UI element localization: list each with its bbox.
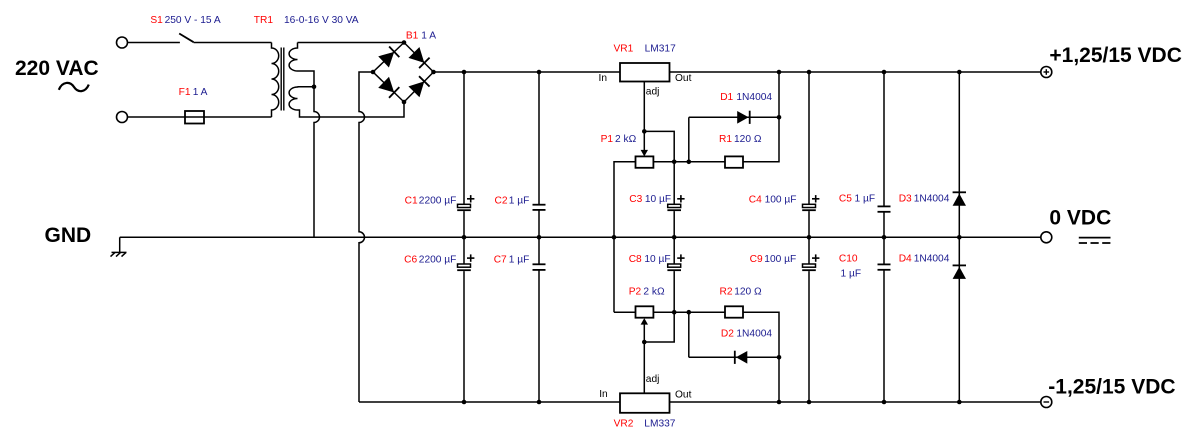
svg-text:VR1: VR1	[614, 43, 634, 54]
capacitor C7	[533, 263, 546, 265]
capacitor C3	[668, 204, 681, 207]
wire + rail left of VR1	[434, 71, 621, 73]
node D3/D4 GND	[957, 235, 962, 240]
node C2/C7 GND	[537, 235, 542, 240]
node bridge bottom	[402, 100, 407, 105]
wire C2/C7 vertical	[538, 72, 540, 205]
svg-text:P2: P2	[629, 287, 642, 298]
wire GND stub to chassis	[119, 237, 121, 252]
node C6 bottom	[462, 400, 467, 405]
node C5 top	[882, 70, 887, 75]
svg-text:1 A: 1 A	[193, 87, 208, 98]
node C10 bottom	[882, 400, 887, 405]
svg-text:250 V - 15 A: 250 V - 15 A	[165, 15, 221, 26]
terminal 220VAC line L	[117, 37, 128, 48]
bridge diode top-left	[379, 46, 399, 67]
svg-text:C1: C1	[405, 196, 418, 207]
svg-text:LM317: LM317	[645, 43, 676, 54]
svg-text:1 µF: 1 µF	[509, 254, 530, 265]
diode D1	[737, 111, 748, 124]
potentiometer P2 body	[636, 306, 654, 317]
node P1 left GND junction	[612, 235, 617, 240]
node D3 top	[957, 70, 962, 75]
wire D3/D4 vertical	[958, 72, 960, 402]
AC sine symbol	[59, 83, 89, 91]
svg-text:10 µF: 10 µF	[644, 254, 670, 265]
wire terminal L to switch	[128, 42, 180, 44]
svg-text:C3: C3	[629, 194, 642, 205]
node adj2	[642, 340, 647, 345]
terminal +1.25/15 VDC	[1041, 67, 1052, 78]
node C4 top	[807, 70, 812, 75]
svg-text:120 Ω: 120 Ω	[734, 134, 762, 145]
node C1 top	[462, 70, 467, 75]
wire switch to transformer primary	[194, 42, 272, 44]
wire - rail left of VR2	[359, 401, 620, 403]
svg-text:In: In	[599, 389, 608, 400]
node C3/C8 GND	[672, 235, 677, 240]
wire terminal N to fuse	[128, 116, 186, 118]
diode D3	[953, 194, 966, 206]
node C1/C6 GND	[462, 235, 467, 240]
node D2 cathode junction	[777, 355, 782, 360]
wire secondary upper center-tap lead	[298, 71, 315, 87]
svg-text:1 µF: 1 µF	[841, 268, 862, 279]
wire R2 right to - rail	[743, 312, 779, 402]
svg-text:C2: C2	[495, 196, 508, 207]
node center tap	[312, 84, 317, 89]
svg-text:C5: C5	[839, 194, 852, 205]
svg-text:1 µF: 1 µF	[509, 196, 530, 207]
wire - rail right of VR2	[670, 401, 1041, 403]
wire R1 right to + rail	[743, 72, 779, 162]
svg-text:1 µF: 1 µF	[855, 194, 876, 205]
wire D2 horizontal	[689, 356, 779, 358]
wire P2 right	[653, 311, 725, 313]
wire C4/C9 vertical	[808, 72, 810, 204]
svg-text:0 VDC: 0 VDC	[1049, 206, 1111, 229]
wire C1/C6 vertical	[463, 72, 465, 204]
wire VR1 adj	[643, 82, 645, 132]
wire adj1 to C3 line	[644, 131, 674, 156]
svg-text:100 µF: 100 µF	[765, 194, 797, 205]
svg-text:C4: C4	[749, 194, 762, 205]
capacitor C5	[878, 205, 891, 207]
capacitor C8	[668, 264, 681, 267]
svg-text:In: In	[599, 73, 608, 84]
DC symbol	[1079, 237, 1111, 239]
wire GND rail	[120, 236, 1041, 238]
node R2 vertical on - rail	[777, 400, 782, 405]
potentiometer P2 wiper	[643, 324, 645, 343]
svg-text:2200 µF: 2200 µF	[419, 254, 457, 265]
ground chassis symbol	[112, 251, 127, 253]
bridge B1 outline	[373, 43, 434, 103]
transformer TR1 core	[280, 48, 282, 111]
switch S1	[179, 34, 193, 43]
bridge diode bottom-right	[409, 76, 430, 97]
svg-text:16-0-16 V 30 VA: 16-0-16 V 30 VA	[284, 15, 359, 26]
svg-text:B1: B1	[406, 31, 419, 42]
svg-text:D4: D4	[899, 254, 912, 265]
transformer TR1 primary winding	[272, 43, 279, 118]
node C4/C9 GND	[807, 235, 812, 240]
svg-text:Out: Out	[675, 389, 692, 400]
resistor R1	[725, 156, 743, 167]
svg-text:TR1: TR1	[254, 15, 274, 26]
svg-text:C6: C6	[404, 254, 417, 265]
svg-text:100 µF: 100 µF	[764, 254, 796, 265]
capacitor C1	[458, 204, 471, 207]
svg-text:LM337: LM337	[644, 418, 675, 429]
wire P1 right	[653, 161, 725, 163]
node P2 right / C8	[672, 310, 677, 315]
svg-text:C9: C9	[750, 254, 763, 265]
capacitor C6	[458, 264, 471, 267]
wire adj2 to C8 line	[644, 312, 674, 342]
svg-text:-1,25/15 VDC: -1,25/15 VDC	[1048, 375, 1175, 398]
bridge diode bottom-left	[379, 77, 399, 98]
node bridge right	[431, 70, 436, 75]
resistor R2	[725, 306, 743, 317]
svg-text:10 µF: 10 µF	[645, 194, 671, 205]
wire D1 horizontal	[689, 116, 779, 118]
wire C5/C10 vertical	[883, 72, 885, 206]
svg-text:R2: R2	[720, 287, 733, 298]
svg-text:D1: D1	[720, 92, 733, 103]
svg-text:2200 µF: 2200 µF	[419, 196, 457, 207]
wire P2 left	[614, 311, 636, 313]
svg-text:Out: Out	[675, 73, 692, 84]
wire + rail right of VR1	[670, 71, 1041, 73]
svg-text:220 VAC: 220 VAC	[15, 57, 99, 80]
wire center tap to GND rail	[314, 87, 320, 238]
node bridge left	[371, 70, 376, 75]
node P1 right / C3	[672, 160, 677, 165]
wire P1 left to GND line	[614, 162, 636, 312]
svg-text:1N4004: 1N4004	[914, 194, 950, 205]
wire secondary bottom to bridge bottom	[298, 102, 405, 117]
svg-text:C10: C10	[839, 254, 858, 265]
node bridge top	[402, 40, 407, 45]
node D4 bottom	[957, 400, 962, 405]
transformer TR1 secondary winding lower	[289, 87, 297, 110]
node R1 vertical on + rail	[777, 70, 782, 75]
svg-text:R1: R1	[719, 134, 732, 145]
svg-text:C7: C7	[494, 254, 507, 265]
transformer TR1 secondary winding upper	[289, 43, 297, 72]
svg-text:VR2: VR2	[614, 418, 634, 429]
potentiometer P1 wiper	[643, 131, 645, 151]
wire secondary top to bridge top corner	[298, 42, 405, 44]
svg-text:1N4004: 1N4004	[914, 254, 950, 265]
svg-text:D2: D2	[721, 329, 734, 340]
wire C3/C8 vertical	[673, 156, 675, 204]
svg-text:adj: adj	[646, 87, 660, 98]
wire VR2 adj	[643, 342, 645, 393]
wire D2 anode drop	[688, 312, 690, 357]
node P1 right / D1	[687, 160, 692, 165]
regulator VR2 LM337	[620, 393, 670, 413]
potentiometer P1 body	[636, 156, 654, 167]
fuse F1	[185, 111, 204, 124]
svg-text:2 kΩ: 2 kΩ	[643, 287, 665, 298]
svg-text:adj: adj	[646, 374, 660, 385]
wire D1 anode drop	[688, 117, 690, 162]
node C2 top	[537, 70, 542, 75]
terminal 220VAC line N	[117, 112, 128, 123]
capacitor C4	[803, 204, 816, 207]
diode D2	[736, 351, 747, 364]
svg-text:GND: GND	[45, 224, 92, 247]
bridge diode top-right	[409, 48, 430, 69]
svg-text:D3: D3	[899, 194, 912, 205]
svg-text:1N4004: 1N4004	[736, 329, 772, 340]
node P2 right / D2	[687, 310, 692, 315]
svg-text:1 A: 1 A	[421, 31, 436, 42]
wire secondary lower center-tap lead	[298, 86, 315, 88]
regulator VR1 LM317	[620, 63, 670, 82]
capacitor C10	[878, 263, 891, 265]
svg-text:S1: S1	[150, 15, 163, 26]
svg-text:120 Ω: 120 Ω	[734, 287, 762, 298]
svg-text:1N4004: 1N4004	[736, 92, 772, 103]
svg-text:+1,25/15 VDC: +1,25/15 VDC	[1049, 44, 1182, 67]
svg-text:C8: C8	[629, 254, 642, 265]
terminal 0 VDC	[1041, 232, 1052, 243]
terminal -1,25/15 VDC	[1041, 397, 1052, 408]
svg-text:2 kΩ: 2 kΩ	[615, 134, 637, 145]
svg-text:F1: F1	[179, 87, 191, 98]
capacitor C9	[803, 264, 816, 267]
node adj1	[642, 129, 647, 134]
node C9 bottom	[807, 400, 812, 405]
diode D4	[953, 267, 966, 279]
capacitor C2	[533, 204, 546, 206]
wire bridge left corner to negative vertical	[359, 72, 373, 402]
wire fuse to transformer primary	[204, 116, 272, 118]
svg-text:P1: P1	[601, 134, 614, 145]
node C7 bottom	[537, 400, 542, 405]
node C5/C10 GND	[882, 235, 887, 240]
node D1 cathode junction	[777, 115, 782, 120]
